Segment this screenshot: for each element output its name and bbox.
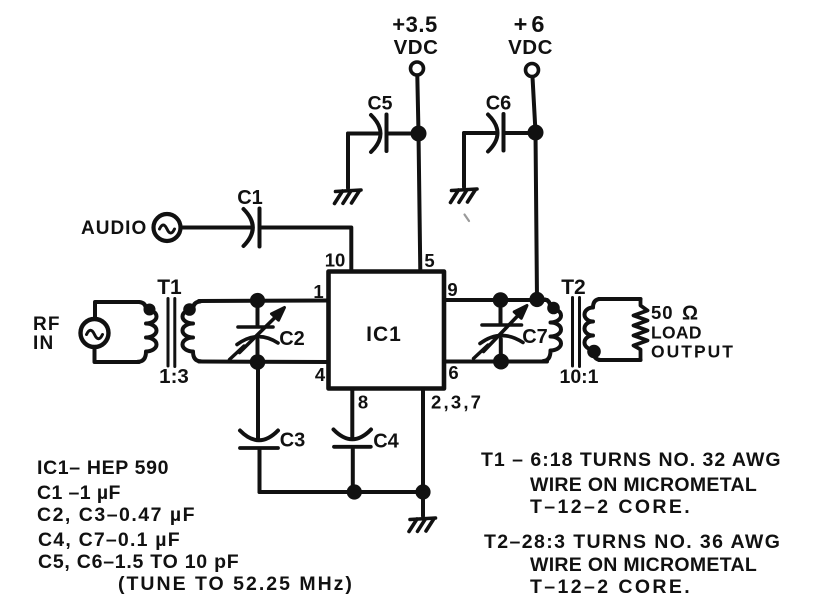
C2 arrowhead — [272, 308, 285, 321]
svg-text:8: 8 — [358, 392, 368, 413]
T2 secondary winding — [585, 299, 601, 360]
node +6 VDC label — [508, 11, 553, 59]
terminal +3.5 VDC — [411, 62, 424, 75]
T1 secondary winding — [183, 302, 201, 362]
label T2 — [561, 276, 586, 299]
label C7 — [522, 326, 548, 348]
T1 primary winding — [138, 302, 157, 362]
svg-text:T2–28:3 TURNS NO. 36 AWG: T2–28:3 TURNS NO. 36 AWG — [484, 531, 781, 553]
wire T2 secondary bottom to load — [599, 358, 641, 362]
wire IC pin 9 to T2 — [444, 298, 547, 302]
junction 2,3,7/rail — [415, 484, 430, 499]
capacitor C3 — [240, 366, 278, 492]
ground (below C6) — [451, 189, 478, 203]
label IC1 — [366, 323, 402, 346]
C2 arrow shaft — [240, 318, 276, 353]
label T1 — [157, 276, 182, 299]
variable capacitor C2 — [230, 305, 285, 360]
label C6 — [486, 93, 512, 115]
wire RF source loop bottom — [95, 348, 140, 363]
junction +6/T2 top — [529, 292, 544, 307]
label C1 — [237, 187, 263, 209]
svg-text:VDC: VDC — [394, 36, 439, 59]
svg-text:C2, C3–0.47 µF: C2, C3–0.47 µF — [37, 504, 196, 526]
T2 core — [571, 298, 574, 367]
wire T1 secondary bottom to IC pin 4 — [199, 360, 329, 365]
svg-text:LOAD: LOAD — [651, 323, 702, 343]
load resistor 50 ohm — [634, 299, 648, 360]
label C5 — [368, 93, 393, 115]
T1 primary polarity dot — [144, 304, 156, 316]
capacitor C5 — [348, 115, 412, 153]
junction C7 bottom — [493, 354, 509, 370]
wire T1 secondary top to IC pin 1 — [199, 299, 329, 304]
label AUDIO — [81, 218, 147, 239]
T2 secondary polarity dot — [587, 345, 601, 359]
ground rail wire — [260, 490, 425, 494]
wire RF source loop top — [95, 302, 139, 319]
transformer T2 — [544, 298, 601, 367]
svg-text:IC1: IC1 — [366, 323, 402, 346]
svg-text:AUDIO: AUDIO — [81, 218, 147, 239]
svg-text:50: 50 — [651, 302, 674, 323]
svg-text:10:1: 10:1 — [559, 366, 598, 388]
label C3 — [280, 430, 306, 452]
wire C6 to ground — [462, 133, 466, 187]
svg-text:WIRE ON MICROMETAL: WIRE ON MICROMETAL — [530, 474, 757, 496]
AC source AUDIO — [154, 214, 181, 241]
svg-text:T2: T2 — [561, 276, 586, 299]
svg-text:4: 4 — [315, 364, 326, 385]
svg-text:C1 –1 µF: C1 –1 µF — [37, 482, 121, 504]
label C2 — [279, 328, 305, 350]
junction C5/+3.5 rail — [411, 126, 427, 142]
pin label 2,3,7 — [431, 392, 483, 413]
transformer notes — [481, 449, 782, 598]
svg-text:9: 9 — [447, 279, 457, 300]
capacitor C1 — [244, 209, 260, 247]
svg-text:+3.5: +3.5 — [392, 12, 437, 37]
svg-text:C6: C6 — [486, 93, 512, 115]
svg-text:(TUNE TO 52.25 MHz): (TUNE TO 52.25 MHz) — [118, 573, 354, 595]
junction C7 top — [493, 292, 509, 308]
label 1:3 — [159, 365, 189, 388]
ground (bottom) — [409, 518, 436, 532]
label 50 ohm LOAD OUTPUT — [651, 302, 735, 362]
svg-text:OUTPUT: OUTPUT — [651, 342, 735, 362]
svg-text:2,3,7: 2,3,7 — [431, 392, 483, 413]
pin label 8 — [358, 392, 368, 413]
svg-text:RF: RF — [33, 314, 61, 335]
wire AUDIO source to C1 — [182, 226, 251, 230]
wire +6 terminal down to T2 line — [533, 77, 538, 299]
wire IC pin 8 down to C4 — [350, 389, 354, 438]
C7 arrowhead — [514, 306, 527, 319]
svg-text:IC1– HEP 590: IC1– HEP 590 — [37, 457, 169, 479]
T2 primary winding — [544, 300, 562, 362]
ground (below C5) — [335, 190, 362, 204]
wire IC pin 6 to T2 — [444, 360, 547, 364]
svg-text:T1: T1 — [157, 276, 182, 299]
label RF IN — [33, 314, 61, 354]
C7 arrow shaft — [484, 316, 519, 352]
T2 primary polarity dot — [547, 302, 560, 315]
svg-text:C4: C4 — [373, 431, 399, 453]
junction C6/+6 rail — [528, 125, 544, 141]
label 10:1 — [559, 366, 598, 388]
wire rail to ground — [421, 492, 425, 516]
IC op-amp/IC1 box — [329, 272, 445, 389]
wire T2 secondary top to load — [599, 297, 641, 301]
terminal +6 VDC — [526, 64, 539, 77]
wire IC pins 2,3,7 down to ground rail — [421, 389, 425, 492]
svg-text:T–12–2 CORE.: T–12–2 CORE. — [530, 576, 692, 598]
wire +3.5 terminal down to IC pin 5 — [417, 76, 420, 272]
wire C1 to IC pin 10 — [262, 228, 352, 272]
svg-text:IN: IN — [33, 333, 54, 354]
variable capacitor C7 — [474, 305, 528, 359]
svg-text:5: 5 — [424, 250, 434, 271]
svg-text:6: 6 — [448, 362, 458, 383]
scan speck — [465, 215, 470, 222]
pin label 5 — [424, 250, 434, 271]
svg-text:T1 – 6:18 TURNS NO. 32 AWG: T1 – 6:18 TURNS NO. 32 AWG — [481, 449, 782, 471]
parts list values — [37, 457, 354, 595]
T1 core — [167, 299, 170, 367]
node +3.5 VDC label — [392, 12, 438, 59]
wire C5 to ground — [346, 134, 350, 189]
svg-text:10: 10 — [325, 250, 346, 271]
pin label 10 — [325, 250, 346, 271]
label C4 — [373, 431, 399, 453]
svg-text:1:3: 1:3 — [159, 365, 189, 388]
AC source RF IN — [81, 319, 109, 347]
svg-text:C3: C3 — [280, 430, 306, 452]
junction C4/rail — [347, 484, 362, 499]
junction C2 top — [250, 293, 265, 308]
svg-text:C2: C2 — [279, 328, 305, 350]
svg-text:+6: +6 — [514, 11, 549, 37]
svg-text:Ω: Ω — [682, 303, 698, 325]
svg-text:C1: C1 — [237, 187, 263, 209]
svg-text:T–12–2 CORE.: T–12–2 CORE. — [530, 496, 692, 518]
capacitor C4 — [334, 430, 372, 493]
svg-text:WIRE ON MICROMETAL: WIRE ON MICROMETAL — [530, 554, 757, 576]
svg-text:VDC: VDC — [508, 36, 553, 59]
svg-text:C5, C6–1.5 TO 10 pF: C5, C6–1.5 TO 10 pF — [38, 551, 239, 573]
pin label 1 — [313, 281, 323, 302]
svg-text:C4, C7–0.1 µF: C4, C7–0.1 µF — [38, 529, 181, 551]
svg-text:C7: C7 — [522, 326, 548, 348]
junction C2 bottom — [250, 354, 266, 370]
svg-text:1: 1 — [313, 281, 323, 302]
capacitor C6 — [464, 114, 529, 152]
pin label 9 — [447, 279, 457, 300]
transformer T1 — [138, 299, 201, 367]
T1 secondary polarity dot — [183, 303, 196, 316]
pin label 4 — [315, 364, 326, 385]
svg-text:C5: C5 — [368, 93, 393, 115]
pin label 6 — [448, 362, 458, 383]
